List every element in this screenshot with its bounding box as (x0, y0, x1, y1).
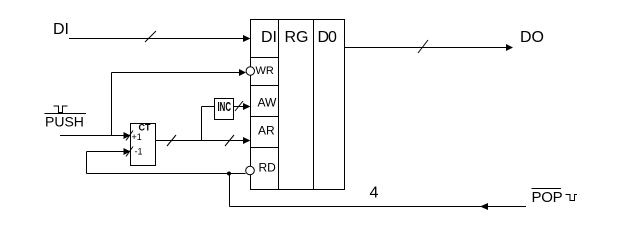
svg-text:RG: RG (285, 29, 309, 46)
svg-text:DI: DI (261, 29, 277, 46)
bus slash 2 on CT output (225, 135, 234, 146)
svg-text:WR: WR (256, 65, 274, 77)
wire RD input from POP line (87, 173, 246, 175)
arrowhead into DI pin (243, 35, 251, 42)
svg-text:-1: -1 (135, 147, 143, 157)
svg-text:CT: CT (139, 123, 151, 133)
arrowhead into WR bubble (239, 69, 246, 76)
svg-text:AW: AW (258, 96, 278, 110)
svg-text:D0: D0 (318, 29, 338, 46)
pulse symbol above PUSH (54, 106, 68, 113)
bus slash 1 on CT output (167, 135, 176, 146)
svg-text:DO: DO (520, 29, 544, 46)
counter CT outline (131, 124, 156, 166)
svg-text:4: 4 (370, 185, 379, 202)
wire POP vertical (229, 174, 231, 207)
wire INC input horizontal (202, 106, 215, 108)
svg-text:POP: POP (532, 189, 563, 206)
bus-width slash on D0 bus (418, 40, 428, 53)
pin cell divider AW/AR (251, 116, 279, 118)
dynamic input slash at +1 (126, 131, 133, 141)
wire INC to AW (234, 106, 245, 108)
wire PUSH horizontal (60, 135, 124, 137)
svg-text:AR: AR (258, 124, 275, 138)
incrementer INC outline (215, 99, 234, 120)
svg-text:+1: +1 (132, 132, 142, 142)
wire INC tap vertical (201, 107, 203, 141)
pin cell divider WR/AW (251, 85, 279, 87)
arrowhead into AW pin (243, 103, 251, 110)
wire DI input bus (69, 38, 244, 40)
svg-text:PUSH: PUSH (45, 114, 84, 130)
register column divider DI/RG (278, 20, 280, 190)
bus-width slash on DI bus (145, 31, 156, 42)
inversion bubble on RD pin (246, 166, 255, 175)
overline POP (532, 188, 562, 190)
wire CT output to AR (156, 140, 245, 142)
junction dot (227, 172, 231, 176)
wire WR input (112, 72, 241, 74)
pulse symbol after POP (566, 195, 578, 201)
inversion bubble on WR pin (246, 67, 254, 75)
svg-text:DI: DI (53, 21, 69, 38)
svg-text:INC: INC (218, 99, 232, 114)
register column divider RG/D0 (313, 20, 315, 190)
register file U1 outline (251, 20, 345, 190)
wire D0 output bus (345, 47, 507, 49)
wire -1 feedback vertical (86, 152, 88, 174)
overline PUSH (45, 113, 87, 115)
wire -1 feedback horizontal (87, 151, 125, 153)
svg-text:RD: RD (259, 161, 277, 175)
arrowhead into CT +1 pin (124, 132, 131, 139)
slash on INC-AW wire (235, 101, 243, 111)
pin cell divider AR/RD (251, 147, 279, 149)
wire POP horizontal (230, 206, 527, 208)
arrowhead on POP wire (480, 203, 488, 210)
pin cell divider DI/WR (251, 57, 279, 59)
wire PUSH-to-WR vertical (111, 73, 113, 136)
arrowhead on DO bus (506, 44, 513, 51)
arrowhead into CT -1 pin (124, 148, 131, 155)
arrowhead into AR pin (243, 137, 251, 144)
dynamic input slash at -1 (126, 147, 133, 157)
